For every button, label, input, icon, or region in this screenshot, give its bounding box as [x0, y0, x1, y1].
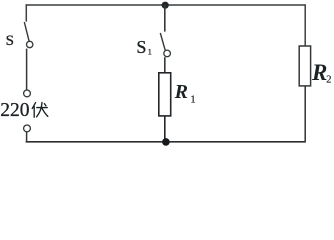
wire top horizontal [26, 4, 306, 6]
resistor R1 box [159, 73, 171, 116]
terminal lower circle [24, 125, 31, 132]
svg-text:R: R [311, 60, 327, 85]
switch S hinge circle [27, 41, 33, 47]
wire left branch middle [26, 49, 28, 91]
junction dot top node [162, 2, 169, 9]
switch S blade [24, 22, 29, 42]
wire bottom horizontal [26, 141, 306, 143]
wire right branch lower [304, 86, 306, 143]
junction dot bottom node [162, 138, 170, 146]
svg-text:220: 220 [0, 100, 29, 121]
CJK glyph FU (volt unit) drawn strokes [32, 102, 48, 117]
resistor R2 box [299, 46, 310, 86]
svg-text:S: S [6, 33, 14, 49]
wire right branch upper [304, 4, 306, 46]
svg-text:S: S [136, 37, 146, 57]
wire middle branch mid [164, 57, 166, 73]
svg-text:2: 2 [326, 75, 331, 86]
svg-text:1: 1 [191, 94, 196, 105]
terminal upper circle [24, 90, 31, 97]
svg-text:1: 1 [148, 47, 152, 57]
wire left branch lower [26, 132, 28, 143]
wire left branch upper [25, 4, 27, 21]
wire middle branch upper [164, 5, 166, 32]
svg-text:R: R [174, 81, 188, 103]
switch S1 blade [160, 33, 165, 51]
wire middle branch lower [164, 116, 166, 142]
switch S1 hinge circle [164, 50, 171, 57]
